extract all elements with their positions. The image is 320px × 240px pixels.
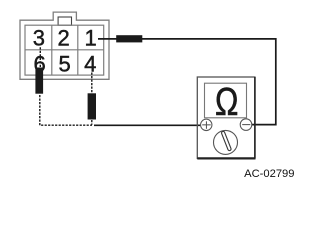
svg-text:4: 4: [84, 52, 96, 77]
svg-text:3: 3: [33, 26, 45, 51]
svg-text:AC-02799: AC-02799: [244, 168, 294, 180]
svg-text:2: 2: [57, 26, 69, 51]
svg-text:1: 1: [84, 26, 96, 51]
svg-text:5: 5: [59, 52, 71, 77]
svg-text:Ω: Ω: [215, 81, 238, 124]
